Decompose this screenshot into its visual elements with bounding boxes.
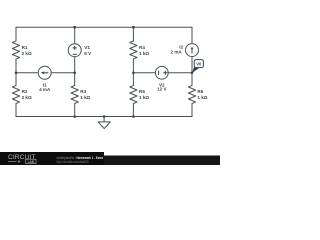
svg-text:R6: R6 xyxy=(197,89,203,94)
junction left rail node A xyxy=(15,72,18,75)
svg-text:R1: R1 xyxy=(22,45,28,50)
resistor R6 xyxy=(188,85,195,103)
I1 arrow head xyxy=(41,71,44,74)
V1 minus symbol xyxy=(73,53,77,55)
svg-text:6 V: 6 V xyxy=(84,51,92,56)
wire R5 to bottom rail xyxy=(132,104,134,117)
junction node C xyxy=(132,72,135,75)
label R2 2 kOhm xyxy=(22,89,32,100)
svg-text:1 kΩ: 1 kΩ xyxy=(197,95,207,100)
svg-text:R5: R5 xyxy=(139,89,145,94)
wire middle-left segment from left rail to I1 xyxy=(16,72,38,74)
I2 arrow xyxy=(191,49,193,54)
wire V1 bottom stub xyxy=(74,57,76,73)
resistor R3 xyxy=(71,85,78,103)
voltage source V1 xyxy=(68,44,81,57)
wire R4 top lead xyxy=(132,27,134,41)
wire V1 top stub xyxy=(74,27,76,44)
label R3 1 kOhm xyxy=(80,89,90,100)
junction top node at V1 xyxy=(73,26,76,29)
svg-text:1 kΩ: 1 kΩ xyxy=(139,51,149,56)
node V0 callout box xyxy=(194,60,203,68)
wire node V0 down to R6 xyxy=(191,73,193,86)
CircuitLab logo LAB box xyxy=(26,159,36,164)
resistor R5 xyxy=(130,85,137,103)
label I1 4 mA xyxy=(39,83,51,92)
label V2 12 V xyxy=(157,82,167,91)
svg-text:R4: R4 xyxy=(139,45,145,50)
svg-text:R3: R3 xyxy=(80,89,86,94)
junction node V0 xyxy=(191,72,194,75)
I1 arrow xyxy=(44,72,49,74)
junction node B xyxy=(73,72,76,75)
wire left rail upper lead xyxy=(15,27,17,41)
wire R4 to R5 through node C xyxy=(132,59,134,85)
current source I2 xyxy=(186,44,199,57)
junction top node at R4 xyxy=(132,26,135,29)
wire I2 to node V0 xyxy=(191,57,193,73)
junction bottom at R5 xyxy=(132,115,135,118)
label R4 1 kOhm xyxy=(139,45,149,56)
voltage source V2 xyxy=(155,66,168,79)
CircuitLab logo rule xyxy=(8,160,17,162)
wire right rail top lead to I2 xyxy=(191,27,193,43)
footer logo plate xyxy=(0,152,104,165)
V2 plus symbol xyxy=(163,71,167,75)
wire middle-right segment from node C to V2 xyxy=(133,72,155,74)
wire top rail xyxy=(16,26,192,28)
label R1 2 kOhm xyxy=(22,45,32,56)
svg-text:2 kΩ: 2 kΩ xyxy=(22,51,32,56)
resistor R2 xyxy=(12,85,19,103)
label I2 2 mA xyxy=(171,45,184,55)
svg-text:1 kΩ: 1 kΩ xyxy=(80,95,90,100)
svg-text:V1: V1 xyxy=(84,45,90,50)
svg-text:2 kΩ: 2 kΩ xyxy=(22,95,32,100)
junction bottom at ground xyxy=(103,115,106,118)
current source I1 xyxy=(38,66,51,79)
svg-text:2 mA: 2 mA xyxy=(171,50,183,55)
wire left rail lower lead xyxy=(15,104,17,117)
wire V2 to node V0 xyxy=(168,72,192,74)
V2 minus symbol xyxy=(158,71,160,75)
junction bottom at R3 xyxy=(73,115,76,118)
wire left rail middle xyxy=(15,59,17,85)
svg-text:V0: V0 xyxy=(196,62,202,67)
label R5 1 kOhm xyxy=(139,89,149,100)
node V0 callout pointer xyxy=(192,66,200,73)
I2 arrow head xyxy=(191,47,194,50)
wire R3 to bottom rail xyxy=(74,104,76,117)
ground xyxy=(98,117,110,129)
svg-text:R2: R2 xyxy=(22,89,28,94)
svg-text:LAB: LAB xyxy=(28,160,35,164)
V1 plus symbol xyxy=(73,46,77,50)
CircuitLab logo bolt xyxy=(18,160,21,164)
wire I1 to node B xyxy=(51,72,74,74)
label R6 1 kOhm xyxy=(197,89,207,100)
footer bar xyxy=(104,156,220,166)
wire node B down to R3 xyxy=(74,73,76,86)
wire R6 to bottom rail xyxy=(191,104,193,117)
wire bottom rail xyxy=(16,116,192,118)
svg-text:4 mA: 4 mA xyxy=(39,87,51,92)
svg-text:12 V: 12 V xyxy=(157,87,167,92)
label V1 6 V xyxy=(84,45,92,56)
svg-text:1 kΩ: 1 kΩ xyxy=(139,95,149,100)
svg-text:http://circuitlab.com/c8ab822/: http://circuitlab.com/c8ab822/ xyxy=(57,160,90,164)
resistor R4 xyxy=(130,41,137,59)
resistor R1 xyxy=(12,41,19,59)
